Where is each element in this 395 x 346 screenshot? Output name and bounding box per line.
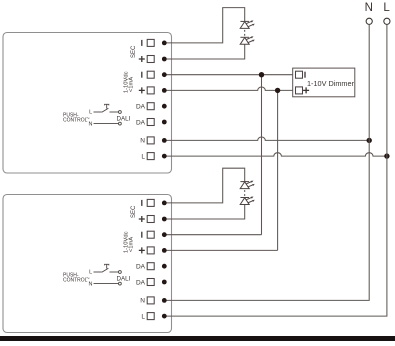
driver box B1: [3, 33, 172, 174]
B1 switch wire to DALI contact: [110, 111, 119, 113]
B2 plus sign SEC: [139, 216, 145, 222]
B1 push actuator: [105, 104, 109, 108]
svg-text:L: L: [89, 110, 92, 116]
svg-text:DA: DA: [136, 104, 146, 111]
wire B1 1-10V- to dimmer: [164, 74, 292, 76]
svg-text:N: N: [140, 138, 145, 145]
dimmer terminal square plus: [296, 87, 303, 94]
wire B1 L to mains L (humps over plus drop and N line): [164, 153, 387, 156]
B1 terminal squares column: [147, 39, 154, 159]
LED D3: [240, 181, 255, 189]
B1 terminal dots column: [162, 41, 167, 159]
wire B2 SEC- to LED chain 2 top: [164, 168, 244, 203]
B1 switch N wire: [94, 123, 119, 125]
wire B1 N to mains N (hump over minus drop): [164, 137, 369, 140]
B1 minus sign SEC: [141, 40, 143, 46]
svg-text:1-10V Dimmer: 1-10V Dimmer: [307, 79, 355, 88]
B1 switch blade: [102, 108, 109, 112]
junction dot on 1-10V+ wire: [275, 88, 280, 93]
wire dimmer minus vertical drop: [261, 75, 263, 235]
dotted series link chain 2: [244, 190, 246, 196]
svg-text:L: L: [141, 153, 145, 160]
B1 contact circle N: [119, 122, 122, 125]
B2 contact circle N: [119, 282, 122, 285]
wire B1 SEC+ from LED chain 1 bottom: [164, 44, 244, 59]
svg-text:<1mA: <1mA: [129, 237, 135, 252]
wire B2 1-10V- up to dimmer minus drop: [164, 234, 261, 236]
svg-text:SEC: SEC: [131, 205, 137, 218]
wire B1 1-10V+ to dimmer (hump over minus drop): [164, 87, 292, 90]
dimmer minus sign: [304, 72, 306, 78]
dotted series link chain 1: [244, 30, 246, 36]
wire B2 SEC+ from LED chain 2 bottom: [164, 205, 244, 219]
B2 terminal squares column: [147, 199, 154, 319]
wire B2 1-10V+ up to dimmer plus drop: [164, 249, 277, 251]
B2 switch L wire: [94, 271, 102, 273]
junction dot N line: [367, 138, 372, 143]
svg-text:DALI: DALI: [117, 275, 131, 282]
svg-text:<1mA: <1mA: [129, 77, 135, 92]
driver box B2: [3, 195, 172, 333]
svg-text:DA: DA: [136, 279, 146, 286]
mains N terminal circle: [366, 18, 372, 24]
svg-text:CONTROL: CONTROL: [63, 277, 88, 283]
svg-text:CONTROL: CONTROL: [63, 117, 88, 123]
LED D1: [240, 20, 255, 28]
wire mains L vertical to B2 L: [164, 25, 387, 317]
B2 switch N wire: [94, 283, 119, 285]
B2 minus sign 1-10V: [141, 232, 143, 238]
LED D4: [240, 197, 255, 205]
B2 switch blade: [102, 268, 109, 272]
dimmer plus sign: [303, 87, 309, 93]
wire B1 SEC- to LED chain 1 top: [164, 8, 244, 43]
B1 plus sign 1-10V: [139, 87, 145, 93]
dimmer terminal square minus: [296, 71, 303, 78]
mains L terminal circle: [384, 18, 390, 24]
B2 switch wire to DALI contact: [110, 271, 119, 273]
svg-text:N: N: [89, 282, 93, 288]
svg-text:N: N: [89, 122, 93, 128]
junction dot L line: [384, 153, 389, 158]
svg-text:DA: DA: [136, 264, 146, 271]
B1 contact circle L: [119, 111, 122, 114]
B2 plus sign 1-10V: [139, 247, 145, 253]
svg-text:N: N: [365, 2, 373, 14]
B1 minus sign 1-10V: [141, 72, 143, 78]
wire dimmer plus vertical drop: [277, 90, 279, 250]
svg-text:N: N: [140, 298, 145, 305]
B1 switch L wire: [94, 111, 102, 113]
wire mains N vertical to B2 N: [164, 25, 369, 301]
B2 push actuator: [105, 264, 109, 268]
svg-text:DA: DA: [136, 119, 146, 126]
LED D2: [240, 36, 255, 44]
B2 minus sign SEC: [141, 200, 143, 206]
svg-text:DALI: DALI: [117, 115, 131, 122]
B2 terminal dots column: [162, 201, 167, 319]
1-10V dimmer box U1: [293, 68, 355, 97]
svg-text:L: L: [141, 313, 145, 320]
bottom border bar: [0, 336, 395, 341]
B2 contact circle L: [119, 271, 122, 274]
svg-text:L: L: [383, 2, 390, 14]
svg-text:SEC: SEC: [131, 45, 137, 58]
svg-text:L: L: [89, 270, 92, 276]
B1 plus sign SEC: [139, 56, 145, 62]
junction dot on 1-10V- wire: [259, 72, 264, 77]
